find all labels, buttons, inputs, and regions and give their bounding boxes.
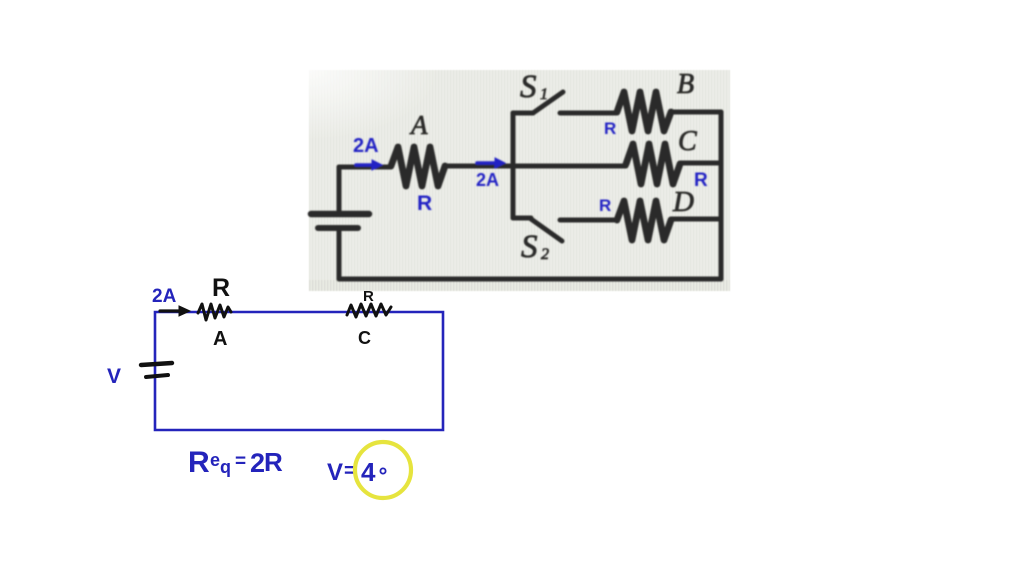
svg-text:R: R: [604, 119, 616, 138]
svg-text:R: R: [599, 196, 611, 215]
svg-text:R: R: [212, 274, 230, 302]
svg-text:R: R: [694, 170, 708, 191]
svg-text:2: 2: [250, 448, 265, 478]
svg-text:e: e: [210, 450, 220, 470]
svg-text:2A: 2A: [152, 286, 177, 307]
svg-text:R: R: [264, 447, 283, 477]
svg-text:=: =: [235, 451, 246, 472]
svg-text:S: S: [520, 69, 537, 105]
svg-text:C: C: [678, 126, 697, 157]
svg-text:q: q: [220, 457, 231, 477]
svg-text:R: R: [363, 288, 374, 305]
svg-text:V: V: [107, 365, 121, 388]
svg-text:A: A: [409, 110, 428, 140]
svg-text:1: 1: [540, 86, 548, 103]
svg-text:A: A: [213, 328, 227, 350]
svg-text:R: R: [188, 446, 210, 479]
svg-text:4: 4: [361, 457, 376, 487]
svg-text:V: V: [327, 459, 343, 486]
svg-text:2A: 2A: [353, 135, 379, 157]
svg-text:B: B: [677, 69, 694, 100]
svg-text:2: 2: [541, 246, 549, 263]
svg-text:C: C: [358, 328, 371, 348]
svg-text:2A: 2A: [476, 170, 499, 190]
svg-text:S: S: [521, 229, 538, 265]
svg-text:D: D: [672, 186, 694, 218]
svg-text:R: R: [417, 192, 432, 215]
